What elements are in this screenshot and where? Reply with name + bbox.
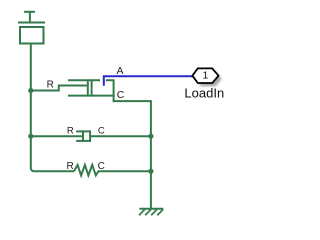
svg-text:C: C (117, 89, 125, 101)
svg-text:R: R (47, 79, 54, 90)
svg-text:R: R (67, 125, 74, 136)
svg-text:R: R (66, 161, 73, 172)
svg-text:A: A (116, 65, 123, 77)
svg-text:C: C (98, 161, 105, 172)
svg-text:LoadIn: LoadIn (184, 85, 224, 100)
svg-text:C: C (98, 126, 105, 137)
svg-text:1: 1 (202, 70, 208, 82)
